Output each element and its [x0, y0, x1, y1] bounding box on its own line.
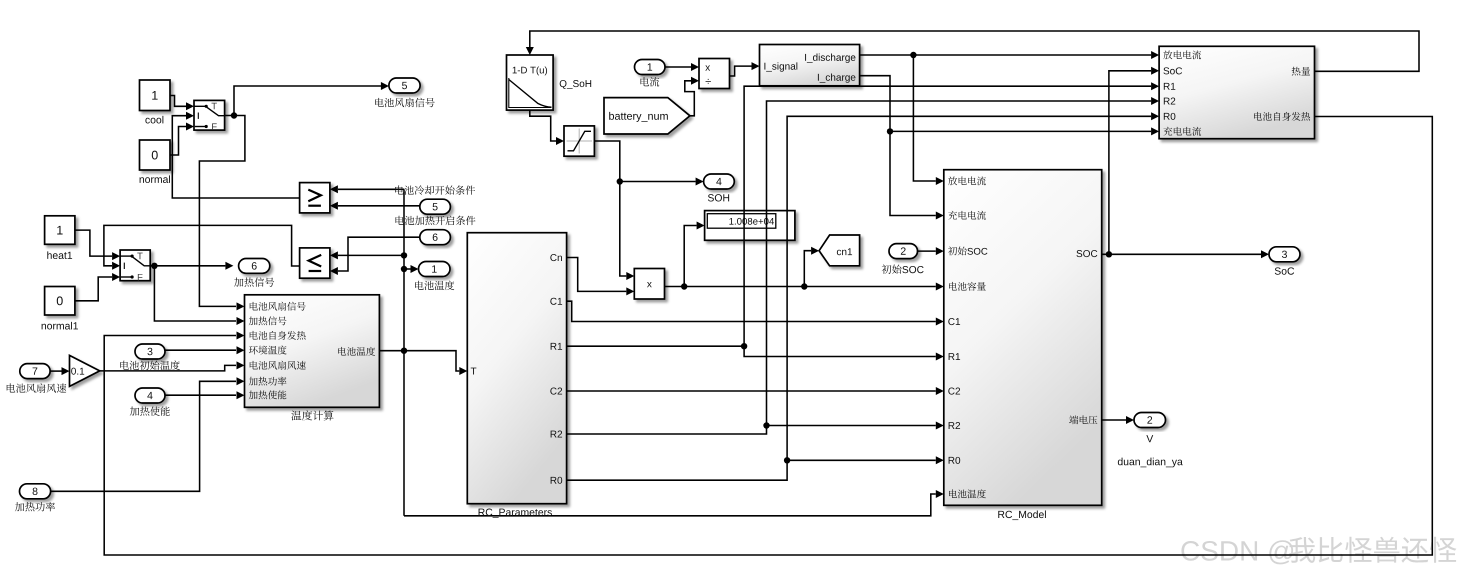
wire battery-temp to LE top input: [330, 251, 407, 259]
outport 2 V: [1134, 413, 1166, 443]
wire divide to I_signal: [730, 62, 760, 76]
relational operator GE: [300, 183, 330, 213]
display 1.008e+04: [705, 211, 795, 241]
label RC_Model: [998, 510, 1046, 520]
wire SOC out to outport3 and heat block SoC: [1102, 67, 1269, 258]
subsystem RC_Parameters: [467, 233, 566, 504]
lookup table Q_SoH: [507, 55, 554, 110]
constant normal1 value 0: [42, 287, 78, 330]
label temperature calculation: [291, 410, 333, 420]
gain 0.1: [70, 355, 100, 386]
wire C1 to RC_Model: [567, 301, 944, 325]
switch SW2 (heat): [120, 250, 150, 281]
label under inport4: [130, 406, 170, 415]
wire inport4 to enable port: [165, 391, 245, 399]
outport 4 SOH: [704, 174, 735, 202]
watermark CSDN: [1181, 537, 1456, 565]
wire normal1 to SW2 F: [75, 273, 120, 301]
switch SW1 (fan): [194, 100, 225, 130]
label under inport8: [15, 502, 55, 511]
wire to outport SOH: [620, 178, 704, 186]
wire R2 to heat block and RC_Model: [567, 97, 1160, 434]
inport 8 heat power: [20, 484, 51, 499]
outport 1 battery temperature: [419, 262, 451, 277]
goto tag cn1: [819, 235, 860, 266]
label under inport3: [120, 361, 180, 371]
wire battery-temp down to RC_Model temp input: [404, 490, 944, 516]
inport 1 current: [635, 60, 666, 75]
outport 6 heat signal: [239, 259, 270, 274]
wire gain to fan-speed port: [100, 361, 245, 371]
inport 5 cooling start condition: [420, 199, 451, 214]
wire inport3 to ambient port: [165, 346, 245, 354]
relational operator LE: [300, 248, 330, 278]
wire lookup to saturation: [530, 110, 564, 145]
constant heat1 value 1: [45, 216, 75, 259]
label under inport1: [640, 77, 659, 86]
constant cool value 1: [140, 80, 171, 124]
label RC_Parameters: [479, 509, 552, 518]
inport 3 initial temperature: [135, 344, 165, 359]
wire inport1 to divide: [665, 63, 699, 71]
saturation block: [564, 126, 594, 156]
wire product out to capacity, display, cn1: [665, 283, 944, 291]
wire branch to display: [684, 222, 704, 287]
subsystem I_signal: [760, 45, 860, 86]
wire I_discharge to heat block and RC_Model: [860, 51, 1160, 185]
wire SW1 output to outport5 and fan port: [199, 82, 389, 310]
wire cool to SW1 T: [170, 96, 194, 111]
wire Cn to product: [567, 258, 635, 296]
constant normal value 0: [140, 140, 171, 183]
data store battery_num: [604, 98, 690, 134]
wire I_charge to heat block and RC_Model: [860, 76, 1160, 220]
label above inport6: [395, 216, 475, 225]
inport 4 heat enable: [135, 388, 165, 403]
wire temp-calc output to trunk and T input: [379, 348, 467, 376]
label under outport5: [375, 98, 434, 107]
label Q_SoH: [560, 80, 591, 89]
product block Cn*SOH: [634, 269, 664, 300]
wire inport8 to heat-power port: [51, 377, 245, 491]
inport 7 fan speed: [20, 364, 50, 379]
wire heat1 to SW2 T: [75, 230, 120, 260]
wire LE out to SW2 control: [104, 225, 300, 269]
inport 6 heating start condition: [420, 230, 451, 245]
label under outport6: [234, 277, 274, 286]
wire inport7 to gain: [50, 367, 69, 375]
subsystem temperature calculation: [245, 295, 380, 408]
label under inport2: [882, 265, 924, 274]
battery temperature trunk vertical: [403, 189, 405, 516]
wire saturation down to product2, SOH branch: [594, 141, 634, 280]
outport 5 fan signal: [389, 78, 420, 93]
wire inport6 to LE bottom input: [330, 237, 420, 275]
wire terminal voltage to outport2: [1102, 416, 1134, 424]
wire R1 to heat block and RC_Model: [567, 82, 1160, 360]
wire normal to SW1 F: [170, 123, 194, 156]
divide block: [699, 59, 730, 89]
label under inport7: [7, 383, 67, 392]
wire heat-quantity feedback into lookup top: [526, 31, 1419, 71]
wire C2 to RC_Model: [567, 387, 944, 395]
label above inport5: [395, 185, 475, 194]
wire battery-temp to GE top input: [330, 185, 404, 193]
wire branch to goto cn1: [804, 247, 819, 287]
wire battery_num to divide bottom: [685, 77, 699, 116]
wire R0 to heat block and RC_Model: [567, 112, 1160, 480]
label duan_dian_ya: [1118, 458, 1183, 468]
wire GE out to SW1 control: [172, 112, 299, 198]
wire inport2 to RC_Model: [918, 247, 944, 255]
wire SW2 output to outport6 and heating port: [150, 262, 244, 325]
subsystem heat generation: [1159, 46, 1314, 138]
outport 3 SoC: [1269, 247, 1300, 275]
subsystem RC_Model: [944, 170, 1102, 506]
inport 2 initial SOC: [889, 244, 918, 259]
wire battery-temp to outport1: [401, 265, 419, 273]
label under outport1: [415, 281, 454, 291]
wire inport5 to GE bottom input: [330, 202, 420, 210]
wire self-heating to temp-calc (bottom route): [104, 117, 1432, 556]
